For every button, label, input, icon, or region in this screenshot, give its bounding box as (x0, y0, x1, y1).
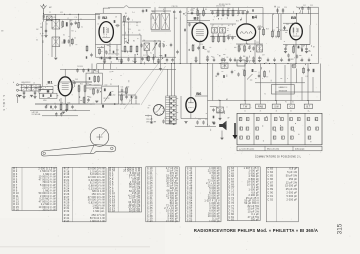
svg-text:B3: B3 (194, 15, 200, 20)
capacitor C19 (179, 10, 181, 14)
capacitor C26 (197, 46, 199, 50)
value label C26 (200, 44, 203, 46)
value label T1 (218, 100, 220, 102)
component cluster detail marks 9 (273, 6, 301, 15)
trimmer capacitor C2 (47, 16, 53, 21)
capacitor C44 (305, 47, 307, 51)
tube B3 EF89 (192, 15, 208, 41)
value label R17 (192, 45, 195, 47)
wire feeder x291.0 (290, 64, 292, 101)
svg-text:R21: R21 (247, 44, 250, 46)
svg-text:R9: R9 (205, 9, 207, 11)
svg-text:C 6: C 6 (75, 17, 78, 19)
capacitor bottom band x=289.0 (288, 58, 290, 62)
component under B2 (116, 57, 118, 60)
wire stub 224.0,33.0 (223, 33, 225, 36)
capacitor C81 (90, 53, 92, 57)
wire can2 to rail (164, 7, 166, 13)
value label BT (313, 47, 315, 49)
wire bottom left drop (51, 47, 53, 58)
wire strip feed 2 (171, 64, 173, 97)
resistor R2 (71, 38, 73, 45)
capacitor C84 (55, 112, 57, 116)
switch contact mark (316, 127, 319, 130)
value label C54 (121, 87, 124, 89)
switch contact mark (265, 118, 268, 121)
value label R20 (240, 45, 243, 47)
tuning gang CV1 (144, 43, 150, 51)
value label C5 (80, 19, 82, 21)
wire link 71.0-92.0 (71, 81, 92, 83)
component cluster detail marks 10 (275, 28, 287, 42)
wire vert x320 (320, 64, 322, 101)
tube B2 ECC85 (99, 15, 113, 42)
wire link 257.0-263.0 (257, 26, 263, 28)
component in B2 box (114, 20, 116, 23)
capacitor C71 (188, 22, 190, 26)
wire osc link (57, 95, 58, 97)
wire link 187.0-199.9 (187, 22, 200, 24)
svg-text:100 Ω ¼ W: 100 Ω ¼ W (42, 209, 56, 212)
svg-text:2a: 2a (123, 25, 125, 27)
svg-text:BT: BT (3, 100, 5, 102)
capacitor C69 (287, 53, 289, 57)
svg-text:2TRS DRT: 2TRS DRT (146, 119, 153, 121)
ground ferrite 2 (33, 97, 36, 99)
dial drive pulley (90, 128, 109, 147)
dial lamp base (151, 122, 153, 124)
wire above B4 link (210, 10, 246, 12)
junction at x=264.5 (264, 63, 265, 64)
switch contact mark (256, 118, 259, 121)
svg-text:41: 41 (244, 111, 246, 113)
resistor R6 (130, 45, 132, 53)
svg-text:C58: C58 (164, 118, 167, 120)
resistor R26 (84, 84, 86, 92)
label scale row (108, 54, 119, 56)
table of capacitor values C19-C40 (146, 167, 179, 223)
resistor R22 (272, 30, 274, 38)
switch contact dot (265, 115, 268, 118)
wire rail corner v (102, 8, 104, 13)
svg-text:C40: C40 (286, 24, 289, 26)
ground symbol at 135.0 (133, 62, 136, 64)
svg-text:6,3: 6,3 (306, 76, 308, 78)
capacitor C8 in B2 box (98, 15, 100, 19)
capacitor C79 (105, 50, 107, 54)
svg-text:C41 C42 R21 3a: C41 C42 R21 3a (108, 54, 119, 56)
label 4,25 (53, 17, 56, 19)
label scala (99, 57, 112, 60)
junction at x=310.5 (310, 63, 311, 64)
label above B4 row (219, 4, 231, 6)
switch contact mark (240, 127, 243, 130)
value label S2 (63, 35, 65, 37)
label bt left (3, 106, 5, 108)
component right of box B (131, 96, 133, 99)
aerial input terminal 2 (16, 89, 18, 91)
capacitor bottom band x=309.0 (308, 58, 310, 62)
wire jump symbol on top rail (108, 6, 151, 8)
wire column right (78, 14, 80, 21)
diagonal switch mark (247, 74, 253, 80)
resistor R27 (60, 103, 62, 111)
resistor R32 (126, 87, 128, 95)
capacitor C68 (87, 98, 89, 102)
value label C48 (75, 79, 78, 81)
wire B1 top to rail (64, 69, 66, 77)
svg-text:0,5: 0,5 (136, 25, 138, 27)
switch position label box S.W (272, 104, 280, 113)
wire vert x285 (284, 65, 286, 83)
wire link 236.0-263.0 (236, 43, 263, 45)
wire B4 drop (254, 40, 256, 64)
svg-text:1 900 Ω 1 W: 1 900 Ω 1 W (90, 220, 105, 223)
svg-text:C 82: C 82 (229, 219, 235, 222)
svg-text:CAMBIO DI: CAMBIO DI (278, 86, 287, 89)
switch contact mark (291, 136, 294, 139)
resistor R24 (293, 45, 295, 53)
svg-text:R13: R13 (236, 21, 239, 23)
component cluster detail marks 5 (188, 8, 257, 20)
junction at x=220 (219, 63, 220, 64)
value label R32 (127, 87, 130, 89)
component cluster detail marks 2 (126, 16, 141, 35)
wire B3 top rail (187, 7, 263, 9)
svg-text:R23: R23 (280, 30, 283, 32)
component top mid (146, 9, 148, 11)
wire stub 263.5,27.0 (263, 27, 265, 29)
filter choke L9 (221, 63, 228, 68)
svg-text:C1: C1 (46, 24, 48, 26)
junction at x=155 (154, 63, 155, 64)
capacitor C63 (217, 72, 219, 76)
box below B4 (257, 45, 263, 52)
IF transformer can S1 (52, 20, 60, 30)
capacitor bottom band x=230.5 (229, 58, 231, 62)
wire stub 218.5,33.0 (218, 33, 220, 36)
switch contact mark (290, 118, 293, 121)
svg-text:B2: B2 (102, 15, 108, 20)
wire stub 24.0,93.6 (23, 94, 25, 97)
wire stub 283.0,13.7 (282, 8, 284, 13)
wire stub 310.0,25.0 (309, 25, 311, 45)
resistor R7 (136, 45, 138, 53)
dial cord diagonal 2 (141, 66, 166, 105)
value label C8 (115, 17, 117, 19)
svg-text:C21: C21 (190, 10, 193, 12)
wire link 35.0-95.0 (35, 103, 95, 105)
wire link 122.0-141.0 (122, 21, 141, 23)
switch contact mark (291, 127, 294, 130)
capacitor C46 (34, 91, 36, 95)
junction top at x=64.5 (64, 14, 65, 15)
value label C24 (228, 35, 231, 37)
wire x131 stub (131, 99, 133, 104)
svg-text:R6: R6 (133, 41, 135, 43)
svg-text:C14 3-30: C14 3-30 (77, 66, 83, 68)
tube B1 ECH81 (48, 77, 73, 96)
resistor R11 (222, 9, 224, 17)
wire strip feed 3 (174, 64, 176, 97)
capacitor C82 (211, 10, 213, 14)
wire box A feed 2 (97, 69, 99, 73)
wire stub 124.3,22.0 (123, 22, 125, 44)
wire from switch box C.I up (290, 101, 292, 105)
wire stub 103.5,63.5 (103, 64, 105, 70)
resistor R14 (212, 35, 214, 43)
value label T2 (264, 94, 266, 96)
value label 3a (150, 53, 152, 55)
svg-text:4,25: 4,25 (60, 12, 63, 14)
capacitor C56 smoothing (196, 120, 198, 124)
value label C37 (262, 55, 265, 57)
component cluster detail marks 15 (46, 96, 92, 106)
box IF filter A (86, 73, 102, 85)
wire B5 anode drop (295, 40, 297, 64)
wire stub 220.0,110.5 (219, 111, 221, 119)
wire stub 308.5,10.7 (308, 11, 310, 14)
svg-text:R30: R30 (243, 56, 246, 58)
IF transformer can S4 (161, 14, 170, 30)
resistor R37 (99, 48, 101, 55)
capacitor C27 (206, 55, 208, 59)
component cluster detail marks 18 (148, 105, 156, 122)
svg-text:BT: BT (313, 47, 315, 49)
value label 2a (123, 25, 125, 27)
svg-text:R 16: R 16 (13, 209, 19, 212)
wire stub 296.5,13.7 (296, 14, 298, 24)
wire x181 drop (180, 96, 182, 119)
capacitor C61 (237, 72, 239, 76)
pointer arrow bold (233, 123, 238, 139)
value label R10 (96, 71, 99, 73)
wire link 210.0-236.0 (210, 35, 236, 37)
label under B5 (288, 59, 294, 61)
svg-text:R 32: R 32 (64, 210, 70, 213)
junction rail y100 d (307, 100, 308, 101)
label +150 (112, 95, 116, 97)
svg-text:R20: R20 (240, 45, 243, 47)
junction rail y100 c (275, 100, 276, 101)
label pos scala (146, 119, 153, 121)
wire to ground (45, 21, 47, 36)
resistor R3 (78, 21, 80, 29)
capacitor C16 (134, 57, 136, 61)
switch contact mark (256, 136, 259, 139)
switch contact mark (315, 118, 318, 121)
junction at x=255 (254, 63, 255, 64)
wire stub 224.5,110.5 (224, 111, 226, 115)
value label R22 (272, 30, 275, 32)
wire x281 (280, 14, 282, 40)
svg-text:3a: 3a (150, 53, 152, 55)
wire B6 cathode link (181, 118, 208, 120)
value label R3 (72, 31, 74, 33)
capacitor bottom band x=268.0 (267, 58, 269, 62)
wire top rail to B3 section (159, 7, 188, 9)
ground symbol at 253.5 (252, 61, 255, 63)
switch contact dot (308, 125, 311, 128)
capacitor C22 (237, 10, 239, 14)
capacitor C15 (109, 56, 111, 60)
component cluster detail marks 20 (151, 9, 186, 20)
wire link 97.0-104.0 (97, 47, 104, 49)
svg-text:41: 41 (260, 111, 262, 113)
junction at x=296 (295, 63, 296, 64)
switch contact mark (274, 118, 277, 121)
coil core L2 (63, 39, 65, 43)
value label L5 (23, 82, 25, 84)
wire b2box left drop (95, 45, 97, 58)
switch contact dot (279, 124, 282, 127)
svg-text:OC: OC (36, 40, 38, 42)
wire right of B4 (262, 8, 264, 28)
switch contact mark (240, 136, 243, 139)
wire lower rail2 (30, 110, 90, 112)
capacitor C34 (239, 56, 241, 60)
table of resistor values R17-R42 (63, 167, 107, 223)
wire gang drop (140, 35, 142, 64)
wire under cans (151, 30, 171, 32)
capacitor C3 (70, 22, 72, 26)
node antenna junction (43, 13, 44, 14)
svg-text:● Accoppio: ● Accoppio (295, 148, 304, 151)
svg-text:C.I: C.I (289, 107, 292, 109)
wire feeder x260.5 (260, 64, 262, 101)
capacitor C58 (162, 119, 164, 123)
capacitor C87 (82, 68, 84, 72)
tube B4 EABC80 (237, 15, 258, 41)
component cluster detail marks 3 (124, 38, 165, 53)
switch contact mark (282, 136, 285, 139)
resistor R34 (264, 70, 266, 78)
svg-text:B1: B1 (48, 79, 54, 84)
wire stub 153.5,54.0 (153, 54, 155, 64)
wire drop x160 (160, 41, 162, 69)
capacitor C48 (73, 81, 75, 85)
svg-text:C57: C57 (205, 119, 208, 121)
switch contact mark (308, 136, 311, 139)
ground symbol at 306.5 (305, 51, 308, 53)
wire x207 drop (207, 64, 209, 127)
wire terminal 2 lead (19, 89, 22, 91)
value label R9 (205, 9, 207, 11)
value label R28 (68, 102, 71, 104)
component psu (252, 69, 254, 72)
junction at x=274.5 (274, 63, 275, 64)
svg-text:C49: C49 (74, 110, 77, 112)
wire x310 drop (310, 7, 312, 25)
value label AP (303, 45, 305, 48)
svg-text:C44: C44 (308, 51, 311, 53)
wire stub 218.0,7.5 (217, 8, 219, 11)
value label S5 (292, 102, 294, 104)
wire link 60.0-72.1 (60, 81, 72, 83)
wire link 283.0-288.0 (283, 29, 288, 31)
value label P1 (110, 84, 112, 86)
dial cord diagonal 1 (124, 62, 160, 109)
switch contact dot (261, 125, 264, 128)
svg-text:L4: L4 (221, 25, 223, 27)
svg-text:2 000 pF: 2 000 pF (287, 199, 298, 202)
capacitor C49 (71, 105, 73, 109)
capacitor C80 (141, 57, 143, 61)
capacitor C57 smoothing (202, 120, 204, 124)
capacitor C65 (212, 108, 214, 112)
wire speaker feed (219, 101, 221, 108)
svg-text:Marca di unità: Marca di unità (267, 148, 280, 151)
capacitor C10 (127, 17, 129, 21)
wire stub 277.5,13.7 (277, 8, 279, 13)
svg-text:C 18: C 18 (109, 210, 115, 213)
switch contact mark (239, 118, 242, 121)
page number 315 (337, 223, 344, 234)
wire main bottom rail (97, 63, 319, 65)
wire link 122.0-141.0 (122, 34, 141, 36)
value label R26 (86, 84, 89, 86)
svg-text:C 92: C 92 (268, 199, 274, 202)
value label R13 (236, 21, 239, 23)
resistor R15 (218, 35, 220, 43)
ground smoothing (212, 123, 215, 125)
component cluster detail marks 16 (216, 58, 269, 80)
wire terminal 3 lead (19, 95, 22, 97)
svg-text:R32: R32 (127, 87, 130, 89)
wire stub 74.5,85.2 (74, 85, 76, 87)
coupling coil box L4 (220, 28, 226, 34)
capacitor at x=121.5 bottom band (120, 58, 122, 62)
svg-text:0,1: 0,1 (52, 109, 54, 111)
capacitor C52 (301, 6, 303, 10)
svg-text:4,25: 4,25 (53, 17, 56, 19)
capacitor C32 (248, 45, 250, 49)
value label R6 (133, 41, 135, 43)
switch position label box B.T (304, 104, 312, 113)
switch contact mark (297, 118, 300, 121)
ground ferrite 1 (22, 97, 25, 99)
svg-text:S5: S5 (292, 102, 294, 104)
tube B6 rectifier (186, 91, 202, 112)
wire stub 135.0,54.0 (134, 54, 136, 64)
capacitor C18 (173, 10, 175, 14)
value label 0,5 (136, 25, 138, 27)
wire stub 259.5,31.2 (259, 31, 261, 44)
component under cans (165, 54, 167, 57)
component cluster detail marks 1 (61, 20, 79, 45)
ground symbol at 196.0 (194, 61, 197, 63)
capacitor C28 (195, 56, 197, 60)
component cluster detail marks 11 (286, 45, 312, 58)
value label S4 (163, 11, 165, 13)
value label R14 (211, 36, 214, 38)
svg-text:C56: C56 (198, 119, 201, 121)
wire cans to rail (154, 7, 156, 13)
wire long rail y100 (208, 100, 321, 102)
svg-text:COMMUTATORE DI POSIZIONE 2: COMMUTATORE DI POSIZIONE 2 L (255, 156, 302, 159)
wire link 151.0-171.0 (151, 10, 171, 12)
junction top at x=70 (69, 14, 70, 15)
capacitor C88 (125, 95, 127, 99)
trimmer arrow (153, 42, 158, 50)
wire stub 96.8,63.5 (96, 64, 98, 70)
svg-text:C48: C48 (75, 79, 78, 81)
resistor R35 (303, 67, 305, 74)
dial lamp LP1 (292, 64, 296, 68)
switch contact mark (247, 136, 250, 139)
junction at x=207.5 (207, 63, 208, 64)
switch contact dot (294, 122, 297, 125)
